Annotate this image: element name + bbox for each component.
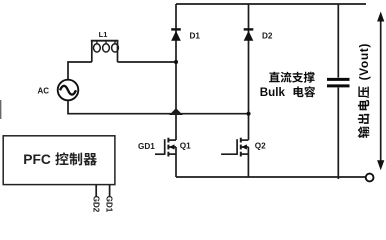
svg-text:GD2: GD2 — [91, 196, 100, 213]
svg-text:Bulk: Bulk — [260, 86, 286, 99]
svg-text:D2: D2 — [262, 31, 273, 40]
svg-text:(Vout): (Vout) — [357, 43, 371, 80]
svg-text:AC: AC — [38, 87, 50, 96]
svg-text:GD1: GD1 — [105, 196, 114, 213]
svg-text:D1: D1 — [190, 31, 201, 40]
svg-text:PFC: PFC — [23, 152, 51, 167]
svg-text:Q1: Q1 — [180, 142, 191, 151]
svg-text:L1: L1 — [99, 30, 108, 39]
svg-text:Q2: Q2 — [255, 142, 266, 151]
svg-text:GD1: GD1 — [138, 142, 155, 151]
